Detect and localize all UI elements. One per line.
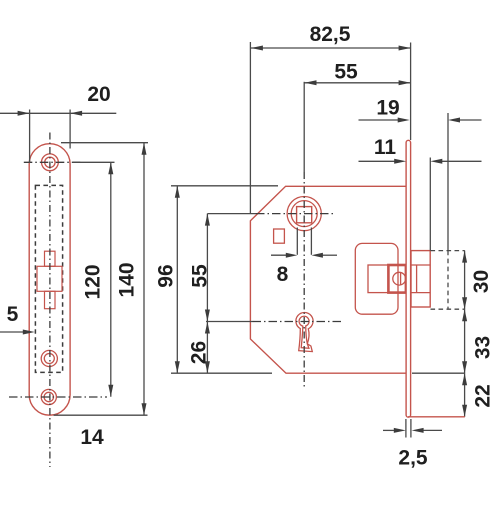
lower hole outer	[41, 350, 57, 366]
dim 2,5 right line	[422, 429, 442, 431]
dim 82,5 line	[251, 47, 411, 49]
svg-text:120: 120	[81, 264, 104, 299]
dim 140 top ext	[61, 142, 148, 144]
latch cutout lower tab	[45, 291, 56, 308]
dim 120 up arrow	[108, 162, 113, 174]
dim 19 left-point arrow	[448, 118, 460, 123]
dim 140 up arrow	[142, 143, 147, 155]
dim 26 line	[206, 322, 208, 374]
dim 33 line	[464, 309, 466, 373]
dim 96 up arrow	[175, 186, 180, 198]
strike plate outline	[29, 144, 70, 416]
keyhole outer outline	[296, 312, 313, 351]
dim right common ext	[410, 43, 412, 141]
bolt head inner bottom line	[411, 292, 430, 294]
leader 5 arrow	[23, 330, 35, 335]
plate vertical centerline	[49, 133, 51, 468]
spindle square	[297, 207, 312, 223]
hub vertical centerline dashed	[303, 172, 305, 387]
dim 96 top ext	[171, 185, 278, 187]
dim 55 vertical line	[206, 214, 208, 322]
bolt head rect	[411, 251, 430, 307]
dim 96 down arrow	[175, 361, 180, 373]
dim 11 right-point arrow	[394, 159, 406, 164]
bolt head inner top line	[411, 264, 430, 266]
latch bolt block (thick)	[388, 265, 406, 293]
dim 19 ext line	[447, 113, 449, 251]
dim 33 bottom ext	[412, 372, 465, 374]
screw hole top inner	[45, 157, 55, 167]
latch spring housing	[355, 243, 398, 314]
svg-text:8: 8	[277, 263, 289, 286]
hub inner circle	[291, 201, 317, 227]
dim 82,5 right arrow	[399, 46, 411, 51]
dim 20 ext line left	[29, 110, 31, 164]
svg-text:96: 96	[154, 264, 177, 287]
dim 96 line	[176, 186, 178, 373]
bolt extended dashed top	[431, 250, 465, 252]
strike plate dashed cutout box	[35, 185, 62, 372]
dim 55 top line	[305, 82, 411, 84]
hub slot left line	[296, 228, 298, 255]
latch pin circle	[393, 272, 406, 285]
dim 82,5 left ext	[249, 42, 251, 214]
dim 120 line	[110, 162, 112, 396]
dim 8 right arrow	[286, 253, 298, 258]
dim 2,5 right-point arrow	[394, 428, 406, 433]
latch cutout upper tab	[45, 251, 56, 266]
svg-text:22: 22	[471, 384, 494, 407]
plate top hole centerline	[24, 161, 83, 163]
screw hole bottom outer	[41, 389, 56, 404]
dim 30 down arrow	[462, 297, 467, 309]
screw hole top outer	[42, 154, 59, 171]
svg-text:140: 140	[115, 262, 138, 297]
dim 19 right-point arrow	[398, 118, 410, 123]
leader 5 line	[0, 331, 24, 333]
svg-text:26: 26	[187, 341, 210, 364]
latch pin chord	[400, 273, 402, 286]
keyhole horizontal centerline dashed	[253, 321, 344, 323]
dim 30 line	[464, 251, 466, 310]
svg-text:33: 33	[471, 336, 494, 359]
dim 20 ext line right	[69, 110, 71, 149]
dim 20 line	[0, 112, 116, 114]
dim 120 down arrow	[108, 385, 113, 397]
dim 11 ext line	[429, 158, 431, 251]
svg-text:11: 11	[374, 136, 397, 159]
dim 8 right line	[321, 254, 337, 256]
svg-text:19: 19	[376, 96, 399, 119]
dim 2,5 left line	[383, 429, 395, 431]
svg-text:55: 55	[334, 60, 358, 83]
dim 11 left line	[359, 160, 396, 162]
dim 33 up arrow	[462, 309, 467, 321]
svg-text:55: 55	[189, 264, 212, 288]
plate bottom hole centerline	[9, 396, 107, 398]
latch cutout wide box	[37, 266, 62, 291]
dim 19 left line	[359, 119, 399, 121]
bolt head inner vertical line	[416, 265, 418, 293]
faceplate	[406, 140, 411, 417]
dim 82,5 left arrow	[251, 46, 263, 51]
hub vertical centerline solid ext	[303, 82, 305, 172]
dim 2,5 ext right	[410, 419, 412, 438]
dim 55 top left arrow	[305, 80, 317, 85]
dim 22 up arrow	[462, 373, 467, 385]
svg-text:14: 14	[80, 426, 104, 449]
dim 140 line	[143, 143, 145, 416]
svg-text:5: 5	[7, 303, 19, 326]
dim 22 down arrow	[462, 405, 467, 417]
dim 33 down arrow	[462, 361, 467, 373]
dim 22 bottom ext red	[408, 416, 465, 418]
dim 11 right line	[441, 160, 482, 162]
hub horizontal centerline dashed	[256, 213, 336, 215]
dim 26 down arrow	[205, 361, 210, 373]
dim 26 up arrow	[205, 322, 210, 334]
dim 8 left arrow	[311, 253, 323, 258]
dim 22 line	[464, 373, 466, 417]
dim 8 left line	[271, 254, 288, 256]
dim 20 left-pointing arrow	[70, 111, 82, 116]
dim 30 up arrow	[462, 251, 467, 263]
small rectangle detail	[274, 229, 285, 243]
keyhole horizontal centerline solid ext	[206, 321, 253, 323]
latch tail rect	[368, 265, 388, 293]
bolt extended dashed bottom	[431, 308, 465, 310]
bolt extended dashed face	[447, 251, 449, 310]
dim 19 right line	[459, 119, 482, 121]
hub horizontal centerline solid ext	[207, 213, 256, 215]
dim 55 top right arrow	[399, 80, 411, 85]
lower hole inner	[44, 354, 54, 364]
dim 55v up arrow	[205, 214, 210, 226]
svg-text:20: 20	[87, 83, 110, 106]
dim 55v down arrow	[205, 310, 210, 322]
dim 96 bottom ext	[171, 372, 272, 374]
dim 140 down arrow	[142, 403, 147, 415]
svg-text:82,5: 82,5	[310, 23, 351, 46]
dim 140 bottom ext	[54, 414, 148, 416]
hub outer circle	[287, 197, 321, 231]
dim 2,5 left-point arrow	[412, 428, 424, 433]
dim 11 left-point arrow	[430, 159, 442, 164]
svg-text:30: 30	[470, 270, 493, 293]
dim 2,5 ext left	[405, 419, 407, 438]
dim 20 right-pointing arrow	[18, 111, 30, 116]
lock body outline	[250, 186, 406, 373]
hub slot right line	[310, 228, 312, 255]
keyhole inner aperture	[299, 316, 309, 348]
svg-text:2,5: 2,5	[398, 447, 428, 470]
dim 120 top ext	[73, 161, 115, 163]
screw hole bottom inner	[44, 392, 53, 401]
